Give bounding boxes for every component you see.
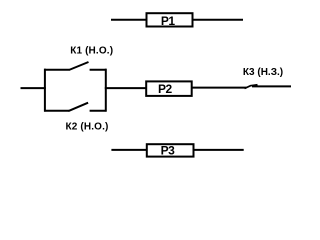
wire: parallel branch left vertical — [44, 69, 46, 112]
svg-text:Р2: Р2 — [158, 82, 173, 96]
relay coil P2 — [146, 81, 192, 96]
wire: rung3 left lead — [111, 149, 146, 151]
wire: rung2 left stub — [21, 87, 46, 89]
wire: rung1 right lead — [193, 19, 243, 21]
relay coil P3 — [147, 144, 194, 156]
svg-text:Р1: Р1 — [161, 14, 176, 28]
relay coil P1 — [147, 13, 193, 26]
wire: rung3 right lead — [194, 149, 244, 151]
contact K2 (N.O.) right terminal — [90, 110, 107, 112]
wire: rung1 left lead — [111, 19, 146, 21]
wire: rung2 right lead after K3 — [252, 85, 291, 87]
contact K1 (N.O.) blade — [69, 62, 89, 70]
svg-text:К1 (Н.О.): К1 (Н.О.) — [70, 46, 113, 57]
contact K3 (N.C.) blade — [245, 85, 258, 89]
svg-text:К3 (Н.З.): К3 (Н.З.) — [243, 67, 283, 78]
wire: rung2 middle lead to P2 — [105, 87, 146, 89]
contact K1 (N.O.) left terminal — [44, 69, 69, 71]
wire: parallel branch right vertical — [105, 69, 107, 112]
svg-text:К2 (Н.О.): К2 (Н.О.) — [65, 121, 108, 132]
contact K2 (N.O.) blade — [68, 103, 88, 111]
wire: rung2 lead from P2 to K3 — [192, 87, 247, 89]
contact K2 (N.O.) left terminal — [44, 110, 69, 112]
svg-text:Р3: Р3 — [161, 144, 176, 158]
contact K1 (N.O.) right terminal — [90, 69, 107, 71]
